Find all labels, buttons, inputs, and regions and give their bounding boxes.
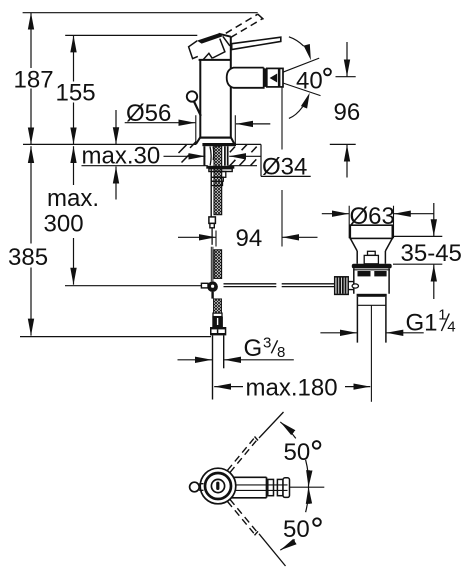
- drain valve body: [354, 268, 389, 293]
- svg-text:94: 94: [236, 225, 263, 252]
- svg-text:4: 4: [447, 319, 455, 336]
- bottom view: aerator rings: [236, 478, 290, 498]
- dimension G3/8: [178, 335, 294, 363]
- bottom view: lower 50 degree ray: [259, 534, 286, 566]
- dimension 96: [330, 42, 360, 178]
- deck hatching: [179, 142, 257, 166]
- label Ø56 with leader and arrows: [125, 100, 271, 144]
- dimension 155: [56, 35, 96, 144]
- svg-text:Ø56: Ø56: [126, 100, 171, 127]
- faucet head sketch: [189, 33, 231, 60]
- drain neck: [357, 251, 385, 264]
- svg-text:max.: max.: [47, 185, 99, 212]
- pop-up rod under deck: [209, 166, 216, 281]
- svg-text:8: 8: [277, 344, 285, 361]
- drain centerline: [370, 305, 372, 402]
- supply hose upper segment (braided): [214, 146, 222, 215]
- svg-text:155: 155: [56, 80, 96, 107]
- dimension 35-45: [393, 203, 462, 299]
- svg-text:max.180: max.180: [246, 375, 338, 402]
- deck top line: [23, 143, 261, 145]
- bottom view: main body circles: [200, 468, 236, 504]
- pop-up rod knob: [187, 91, 201, 116]
- dimension max.30: [82, 110, 206, 200]
- max.300 reference line: [65, 285, 201, 287]
- svg-text:50: 50: [284, 439, 311, 466]
- drain body taper: [350, 238, 392, 251]
- svg-text:G: G: [244, 335, 263, 362]
- 40 degree annotation: [283, 37, 331, 119]
- spout: [227, 68, 283, 88]
- bottom view: centerline: [290, 486, 325, 488]
- shank and mounting hardware under deck: [204, 146, 234, 185]
- bottom view: lever raised position upper (dashed): [228, 437, 259, 473]
- svg-text:385: 385: [8, 244, 48, 271]
- dimension max.180: [214, 375, 370, 402]
- reference line top of body (155 level): [65, 34, 197, 36]
- svg-text:35-45: 35-45: [401, 240, 462, 267]
- svg-text:187: 187: [14, 66, 54, 93]
- svg-text:50: 50: [283, 516, 310, 543]
- svg-text:G1: G1: [406, 309, 438, 336]
- supply pipe below fitting: [212, 335, 214, 399]
- drain tailpipe: [357, 297, 386, 343]
- supply hose third segment and G3/8 fitting: [210, 299, 226, 335]
- svg-text:Ø34: Ø34: [262, 153, 307, 180]
- dimension G1 1/4: [320, 307, 455, 337]
- label Ø34 with leader: [229, 144, 311, 180]
- horizontal actuating rod: [224, 284, 335, 287]
- drain escutcheon flange: [352, 264, 392, 269]
- svg-text:300: 300: [44, 210, 84, 237]
- deck bottom line: [82, 165, 258, 167]
- svg-text:max.30: max.30: [82, 143, 161, 170]
- dimension 50 degrees lower: [280, 487, 321, 550]
- supply hose second segment (braided): [214, 250, 222, 279]
- dimension max.300: [44, 146, 100, 285]
- clamp screw knob: [335, 277, 359, 295]
- svg-text:3: 3: [263, 335, 271, 352]
- svg-text:96: 96: [334, 99, 361, 126]
- drain insert: [368, 251, 376, 255]
- pop-up drain valve: extension lines: [349, 206, 393, 239]
- bottom view: upper 50 degree ray: [259, 412, 284, 438]
- dimension 94: [178, 83, 318, 252]
- bottom view: lever lowered position (dashed): [228, 499, 259, 535]
- bottom view: pop-up knob: [190, 482, 204, 492]
- dimension 385: [8, 146, 48, 335]
- faucet body: [196, 37, 236, 147]
- bottom view: spout tube: [230, 477, 267, 498]
- drain plug head: [350, 225, 392, 238]
- lever handle (raised position, dashed): [226, 14, 264, 37]
- svg-text:40: 40: [296, 68, 323, 95]
- 385 reference line: [20, 336, 211, 338]
- lever handle (horizontal position): [232, 37, 281, 49]
- drain body bottom: [357, 294, 387, 297]
- dimension Ø63: [322, 203, 434, 230]
- dimension 50 degrees upper: [280, 422, 320, 487]
- dimension 187: [14, 13, 54, 145]
- reference line top of lever (187 level): [23, 12, 258, 14]
- pop-up rod tee joint: [201, 281, 218, 298]
